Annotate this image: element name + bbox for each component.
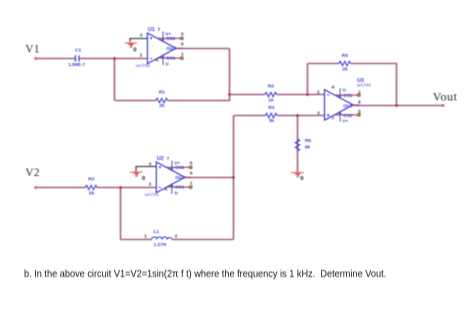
svg-text:7: 7 (167, 156, 170, 161)
svg-text:1: 1 (358, 89, 361, 94)
svg-text:5: 5 (358, 109, 361, 114)
wire U2 pin3 to ground (136, 167, 156, 172)
svg-text:2: 2 (140, 53, 143, 58)
svg-text:6: 6 (190, 171, 193, 176)
svg-text:2k: 2k (159, 103, 165, 109)
svg-text:4: 4 (165, 186, 168, 191)
svg-text:1.59E-7: 1.59E-7 (68, 62, 85, 68)
svg-text:1: 1 (190, 180, 193, 185)
junction R6/pin3 (296, 114, 299, 117)
svg-text:1: 1 (181, 51, 184, 56)
svg-text:V1: V1 (25, 43, 40, 55)
svg-text:U1: U1 (148, 27, 155, 33)
svg-text:OS1: OS1 (166, 56, 176, 61)
svg-text:OS2: OS2 (175, 165, 185, 170)
svg-text:OS1: OS1 (343, 93, 353, 98)
wire V2 to R3 (36, 187, 86, 189)
svg-text:7: 7 (158, 27, 161, 32)
svg-text:0: 0 (133, 47, 137, 53)
svg-text:R5: R5 (342, 53, 348, 59)
svg-text:Vout: Vout (433, 90, 458, 104)
svg-text:1: 1 (144, 234, 147, 239)
svg-text:4: 4 (332, 85, 335, 90)
svg-text:OS1: OS1 (175, 185, 185, 190)
junction R5/OUT (395, 104, 398, 107)
resistor R6 vertical (295, 139, 299, 151)
wire L1 left (121, 239, 152, 241)
resistor R3 (85, 185, 97, 189)
wire U2 OUT (185, 177, 234, 179)
svg-text:V-: V- (165, 61, 170, 66)
svg-text:3: 3 (317, 110, 320, 115)
svg-text:R3: R3 (88, 177, 94, 183)
ground G2 (U2 pin3) (130, 172, 142, 176)
endpoint Vout (442, 104, 445, 107)
svg-text:6: 6 (181, 42, 184, 47)
svg-text:OS2: OS2 (166, 36, 176, 41)
svg-text:V+: V+ (342, 119, 348, 124)
wire R1 right (167, 49, 229, 101)
wire node A vertical to R1 (114, 59, 116, 101)
svg-text:V2: V2 (25, 167, 40, 179)
svg-text:uA741: uA741 (145, 192, 159, 198)
svg-text:2: 2 (149, 182, 152, 187)
svg-text:V-: V- (174, 190, 179, 195)
endpoint V1 (34, 57, 37, 60)
resistor R4 (265, 113, 277, 117)
svg-text:0: 0 (300, 176, 304, 182)
svg-text:2k: 2k (89, 190, 95, 196)
op-amp U3 (mirrored) (317, 78, 371, 124)
ground G3 (R6) (291, 173, 303, 177)
wire R2 net (230, 94, 325, 96)
wire V1 input to C1 (36, 58, 75, 60)
svg-text:7: 7 (332, 116, 335, 121)
resistor R1 (156, 98, 168, 102)
svg-text:4: 4 (156, 57, 159, 62)
wire R4 net (234, 115, 325, 117)
op-amp U2 (145, 156, 193, 198)
svg-text:U2: U2 (157, 156, 164, 162)
junction R2/R1 (228, 93, 231, 96)
svg-text:1.27H: 1.27H (154, 242, 167, 248)
caption text (24, 269, 386, 280)
svg-text:3: 3 (140, 32, 143, 37)
wire C1 to U1 pin2 (79, 58, 147, 60)
wire R5 top right + down (351, 64, 397, 106)
wire node B vertical (120, 188, 122, 240)
svg-text:6: 6 (358, 99, 361, 104)
svg-text:1k: 1k (268, 97, 274, 103)
svg-text:L1: L1 (154, 229, 160, 235)
svg-text:0: 0 (142, 176, 146, 182)
svg-text:3k: 3k (269, 118, 275, 124)
resistor R2 (265, 92, 277, 96)
resistor R5 (339, 61, 351, 65)
svg-text:5: 5 (190, 161, 193, 166)
wire R5 top left (308, 63, 340, 65)
endpoint V2 (34, 186, 37, 189)
svg-text:R6: R6 (305, 138, 311, 144)
svg-text:OUT: OUT (343, 103, 353, 108)
junction node A (113, 57, 116, 60)
svg-text:2: 2 (317, 90, 320, 95)
wire U3 OUT to Vout (353, 105, 443, 107)
junction U2 OUT (232, 176, 235, 179)
wire R4 left vertical to L1 (233, 116, 235, 240)
wire R1 left (115, 100, 157, 102)
svg-text:R2: R2 (268, 84, 274, 90)
svg-text:6k: 6k (305, 145, 311, 151)
wire R3 to U2 pin2 (97, 187, 156, 189)
svg-text:uA741: uA741 (136, 63, 150, 69)
svg-text:OUT: OUT (175, 175, 185, 180)
junction node B (119, 186, 122, 189)
ground G1 (U1 pin3) (125, 43, 137, 47)
svg-text:C1: C1 (75, 48, 81, 54)
capacitor C1 (68, 48, 85, 69)
wire R6 drop (297, 116, 299, 172)
wire U1 pin3 to ground (130, 39, 147, 42)
junction R5/pin2 (306, 93, 309, 96)
svg-text:uA741: uA741 (357, 83, 371, 89)
wire L1 right (172, 239, 233, 241)
wire R5 left vertical (307, 64, 309, 95)
svg-text:V-: V- (342, 88, 347, 93)
svg-text:R1: R1 (159, 90, 165, 96)
svg-text:R4: R4 (268, 105, 274, 111)
svg-text:5: 5 (181, 32, 184, 37)
op-amp U1 (136, 27, 184, 69)
svg-text:3: 3 (149, 161, 152, 166)
inductor L1 (144, 229, 178, 248)
svg-text:2k: 2k (342, 67, 348, 73)
svg-text:2: 2 (175, 234, 178, 239)
wire U1 OUT (176, 48, 230, 50)
svg-text:OS2: OS2 (343, 113, 353, 118)
svg-text:OUT: OUT (166, 46, 176, 51)
